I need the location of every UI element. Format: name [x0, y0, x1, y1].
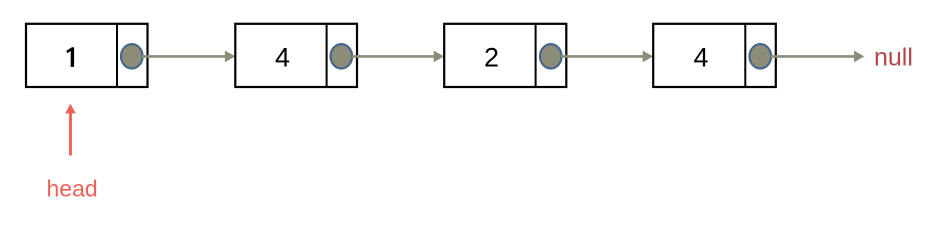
node 1 box [26, 24, 148, 87]
node 1 value 1 [66, 47, 74, 67]
wire arrow node4 to null [771, 51, 865, 63]
node 3 pointer dot [540, 44, 562, 68]
svg-text:4: 4 [693, 43, 708, 73]
wire arrow node3 to node4 [561, 51, 653, 63]
node 1 pointer dot [121, 44, 143, 68]
node 2 box [235, 24, 357, 87]
head arrow [65, 104, 76, 156]
wire arrow node1 to node2 [142, 51, 235, 63]
svg-text:4: 4 [275, 43, 290, 73]
svg-text:head: head [47, 176, 98, 202]
wire arrow node2 to node3 [352, 51, 445, 63]
node 3 box [444, 24, 566, 87]
svg-text:2: 2 [484, 43, 499, 73]
node 4 box [653, 24, 776, 87]
svg-text:null: null [874, 43, 913, 71]
node 2 pointer dot [331, 44, 353, 68]
node 4 pointer dot [750, 44, 772, 68]
